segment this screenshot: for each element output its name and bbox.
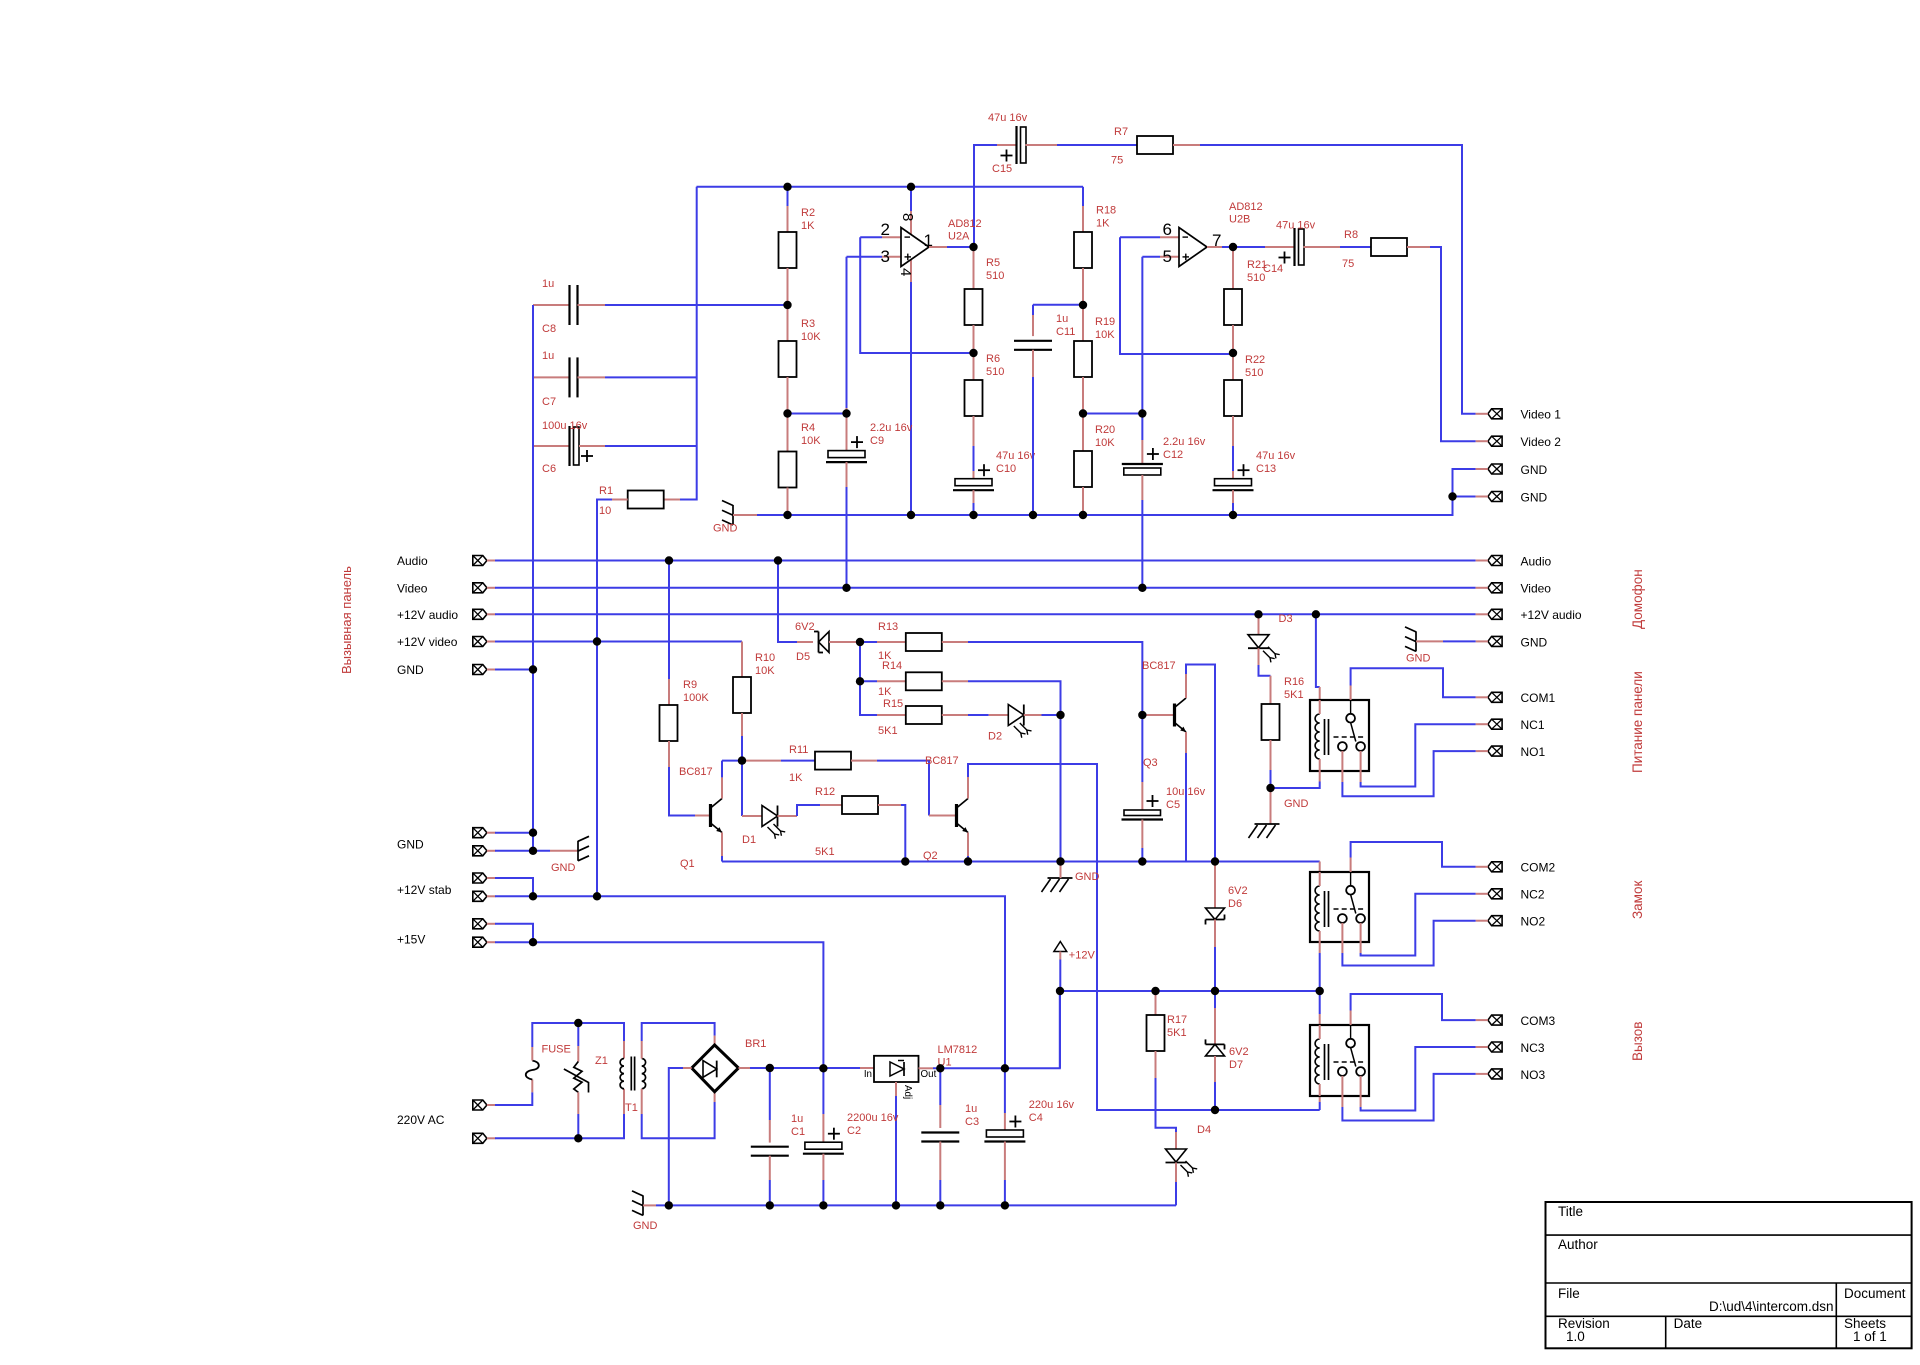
svg-text:75: 75 [1342,258,1354,270]
svg-text:Вызов: Вызов [1630,1022,1645,1061]
svg-text:1u: 1u [542,278,554,290]
svg-text:C1: C1 [791,1126,805,1138]
svg-text:NC1: NC1 [1521,718,1545,732]
svg-text:Вызывная панель: Вызывная панель [339,566,354,674]
svg-text:+12V stab: +12V stab [397,883,452,897]
svg-text:GND: GND [1284,798,1309,810]
svg-text:GND: GND [1406,653,1431,665]
svg-text:D2: D2 [988,731,1002,743]
svg-text:R17: R17 [1167,1014,1187,1026]
svg-text:1u: 1u [965,1103,977,1115]
svg-text:47u 16v: 47u 16v [988,112,1028,124]
svg-text:2200u 16v: 2200u 16v [847,1112,899,1124]
svg-text:R19: R19 [1095,316,1115,328]
svg-text:Домофон: Домофон [1630,569,1645,629]
svg-text:Adj: Adj [902,1085,913,1099]
svg-text:C6: C6 [542,463,556,475]
svg-text:BR1: BR1 [745,1038,766,1050]
svg-text:C5: C5 [1166,799,1180,811]
svg-text:7: 7 [1212,231,1221,250]
svg-text:5K1: 5K1 [878,725,898,737]
svg-text:COM3: COM3 [1521,1014,1556,1028]
svg-text:C14: C14 [1263,263,1283,275]
svg-text:R5: R5 [986,257,1000,269]
svg-text:In: In [864,1069,872,1080]
svg-text:GND: GND [713,523,738,535]
svg-text:GND: GND [1521,490,1548,504]
svg-text:+12V audio: +12V audio [1521,608,1582,622]
svg-text:Out: Out [921,1069,937,1080]
svg-text:C3: C3 [965,1116,979,1128]
svg-text:R15: R15 [883,698,903,710]
svg-text:NC3: NC3 [1521,1041,1545,1055]
svg-text:R6: R6 [986,353,1000,365]
svg-text:Q1: Q1 [680,858,695,870]
svg-text:R10: R10 [755,652,775,664]
svg-text:NC2: NC2 [1521,888,1545,902]
svg-text:1.0: 1.0 [1566,1329,1585,1344]
svg-text:1K: 1K [1096,218,1110,230]
svg-text:2: 2 [881,220,890,239]
svg-text:+12V audio: +12V audio [397,608,458,622]
svg-text:R8: R8 [1344,229,1358,241]
svg-text:D5: D5 [796,651,810,663]
svg-text:6V2: 6V2 [795,621,815,633]
svg-text:1 of 1: 1 of 1 [1853,1329,1887,1344]
svg-text:510: 510 [1245,367,1263,379]
svg-text:47u 16v: 47u 16v [1276,220,1316,232]
svg-text:6V2: 6V2 [1228,885,1248,897]
svg-text:Q3: Q3 [1143,757,1158,769]
svg-text:8: 8 [899,213,916,221]
svg-text:R3: R3 [801,318,815,330]
svg-text:U2B: U2B [1229,214,1250,226]
svg-text:R7: R7 [1114,126,1128,138]
svg-text:47u 16v: 47u 16v [996,450,1036,462]
svg-text:+12V video: +12V video [397,635,458,649]
svg-text:C12: C12 [1163,449,1183,461]
svg-text:Video: Video [1521,582,1552,596]
svg-text:C8: C8 [542,323,556,335]
svg-text:4: 4 [897,268,914,276]
svg-text:BC817: BC817 [679,766,713,778]
svg-text:C4: C4 [1029,1112,1043,1124]
svg-text:R4: R4 [801,422,815,434]
svg-text:GND: GND [397,838,424,852]
svg-text:D6: D6 [1228,898,1242,910]
svg-text:C15: C15 [992,163,1012,175]
svg-text:10: 10 [599,505,611,517]
svg-text:10K: 10K [1095,437,1115,449]
svg-text:10K: 10K [1095,329,1115,341]
svg-text:5K1: 5K1 [815,846,835,858]
svg-text:Audio: Audio [1521,554,1552,568]
svg-text:R14: R14 [882,660,902,672]
svg-text:75: 75 [1111,155,1123,167]
svg-text:100K: 100K [683,692,709,704]
svg-text:NO3: NO3 [1521,1068,1546,1082]
svg-text:GND: GND [551,862,576,874]
svg-text:COM1: COM1 [1521,691,1556,705]
svg-text:GND: GND [1075,871,1100,883]
svg-text:6V2: 6V2 [1229,1046,1249,1058]
svg-text:220V AC: 220V AC [397,1113,445,1127]
svg-text:File: File [1558,1286,1580,1301]
svg-text:100u 16v: 100u 16v [542,420,588,432]
svg-text:Title: Title [1558,1204,1583,1219]
svg-text:C13: C13 [1256,463,1276,475]
svg-text:AD812: AD812 [948,218,982,230]
svg-text:Author: Author [1558,1237,1598,1252]
svg-text:C9: C9 [870,435,884,447]
svg-text:T1: T1 [625,1102,638,1114]
svg-text:R12: R12 [815,786,835,798]
svg-text:R1: R1 [599,485,613,497]
svg-text:D3: D3 [1279,613,1293,625]
svg-text:5K1: 5K1 [1284,689,1304,701]
svg-text:510: 510 [986,366,1004,378]
svg-text:AD812: AD812 [1229,201,1263,213]
svg-text:Date: Date [1674,1316,1703,1331]
svg-text:R9: R9 [683,679,697,691]
svg-text:R18: R18 [1096,205,1116,217]
svg-text:1K: 1K [789,772,803,784]
svg-text:Video 2: Video 2 [1521,435,1562,449]
svg-text:GND: GND [397,663,424,677]
svg-text:2.2u 16v: 2.2u 16v [870,422,913,434]
svg-text:47u 16v: 47u 16v [1256,450,1296,462]
svg-text:Video 1: Video 1 [1521,408,1562,422]
svg-text:FUSE: FUSE [542,1044,571,1056]
svg-text:6: 6 [1163,220,1172,239]
svg-text:Video: Video [397,581,428,595]
svg-text:1u: 1u [791,1113,803,1125]
svg-text:1: 1 [924,231,933,250]
svg-text:BC817: BC817 [1142,660,1176,672]
svg-text:GND: GND [633,1220,658,1232]
svg-text:+12V: +12V [1069,950,1096,962]
svg-text:D7: D7 [1229,1059,1243,1071]
svg-text:Z1: Z1 [595,1055,608,1067]
svg-text:5: 5 [1163,247,1172,266]
svg-text:10K: 10K [801,331,821,343]
svg-text:NO2: NO2 [1521,915,1546,929]
svg-text:GND: GND [1521,463,1548,477]
svg-text:R16: R16 [1284,676,1304,688]
svg-text:1K: 1K [878,686,892,698]
svg-text:5K1: 5K1 [1167,1027,1187,1039]
svg-text:GND: GND [1521,635,1548,649]
svg-text:1u: 1u [542,350,554,362]
svg-text:R20: R20 [1095,424,1115,436]
svg-text:Audio: Audio [397,554,428,568]
svg-text:R11: R11 [789,744,808,756]
svg-text:D4: D4 [1197,1124,1211,1136]
svg-text:2.2u 16v: 2.2u 16v [1163,436,1206,448]
svg-text:LM7812: LM7812 [938,1044,978,1056]
svg-text:510: 510 [986,270,1004,282]
svg-text:1u: 1u [1056,313,1068,325]
svg-text:R13: R13 [878,621,898,633]
svg-text:Замок: Замок [1630,881,1645,919]
svg-text:U2A: U2A [948,231,970,243]
svg-text:R2: R2 [801,207,815,219]
svg-text:C7: C7 [542,396,556,408]
svg-text:D:\ud\4\intercom.dsn: D:\ud\4\intercom.dsn [1709,1299,1834,1314]
svg-text:220u 16v: 220u 16v [1029,1099,1075,1111]
svg-text:C2: C2 [847,1125,861,1137]
svg-text:BC817: BC817 [925,755,959,767]
svg-text:R22: R22 [1245,354,1265,366]
svg-text:NO1: NO1 [1521,745,1546,759]
svg-text:1K: 1K [801,220,815,232]
svg-text:Document: Document [1844,1286,1906,1301]
svg-text:C11: C11 [1056,326,1075,338]
svg-text:Питание панели: Питание панели [1630,671,1645,773]
svg-text:10K: 10K [801,435,821,447]
svg-text:COM2: COM2 [1521,861,1556,875]
svg-text:+15V: +15V [397,933,425,947]
svg-text:10u 16v: 10u 16v [1166,786,1206,798]
svg-text:D1: D1 [742,834,756,846]
svg-text:Q2: Q2 [923,850,938,862]
svg-text:10K: 10K [755,665,775,677]
svg-text:C10: C10 [996,463,1016,475]
